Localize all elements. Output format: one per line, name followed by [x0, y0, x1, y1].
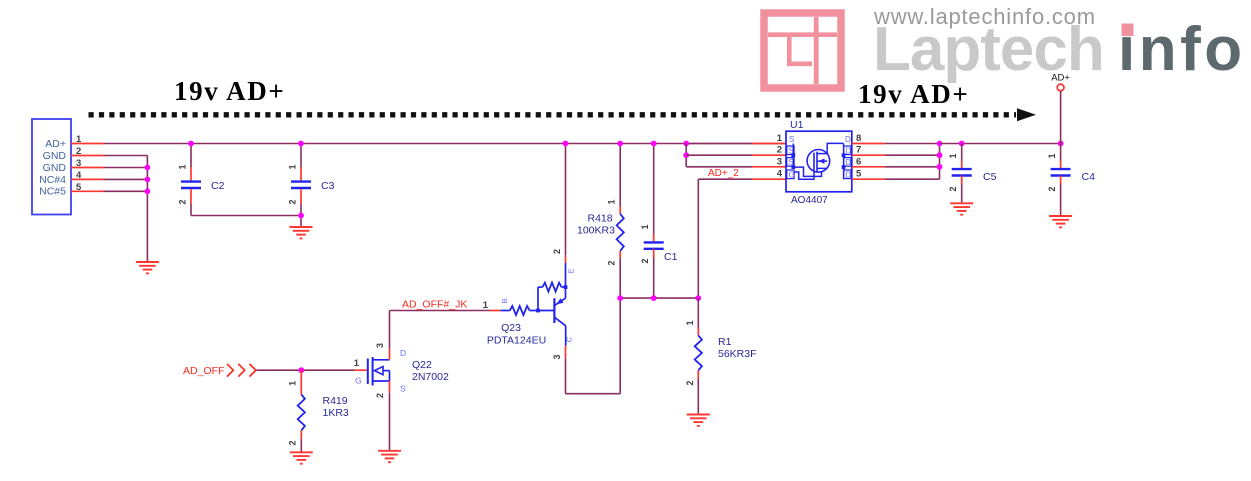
wire U1 pin4 AD+_2 [698, 179, 752, 298]
svg-text:2: 2 [607, 260, 617, 265]
pin number U1 pin5 [856, 169, 862, 180]
capacitor C2 pin1 stub [190, 167, 192, 181]
dotted flow line [89, 112, 1017, 117]
pin number U1 pin7 [856, 145, 861, 156]
svg-text:1: 1 [483, 300, 489, 311]
svg-text:1: 1 [607, 199, 617, 204]
terminal AD+ circle [1057, 84, 1064, 91]
wire R419 bottom [300, 439, 302, 453]
wire Q23 emitter riser [565, 144, 567, 256]
wire R1 bottom [697, 379, 699, 415]
capacitor C4 pin2 stub [1060, 176, 1062, 185]
capacitor C5 pin1 stub [961, 161, 963, 170]
svg-text:NC#5: NC#5 [39, 186, 66, 198]
wire C2 bottom [191, 204, 301, 216]
transistor Q22 gate stub [355, 369, 367, 371]
transistor Q22 drain pin number [375, 343, 385, 348]
net label AD_OFF [183, 365, 224, 377]
svg-text:AD+_2: AD+_2 [708, 168, 739, 179]
capacitor C1 pin1 number [640, 224, 650, 229]
resistor R1 label [718, 336, 757, 360]
capacitor C3 pin2 stub [300, 189, 302, 204]
net label 19v AD+ (right) [858, 79, 969, 109]
transistor Q23 base-emitter resistor [538, 283, 567, 311]
connector CN (DC jack) body [32, 119, 71, 215]
wire U1 pin6 [885, 166, 940, 168]
svg-text:AD+: AD+ [1051, 73, 1070, 84]
junction right bus pin7 [937, 152, 943, 158]
svg-text:1: 1 [1047, 153, 1057, 158]
svg-text:3: 3 [552, 354, 562, 359]
pin stub U1 pin4 [752, 178, 786, 180]
svg-text:2: 2 [178, 199, 188, 204]
U1 pin3 letter S [787, 158, 794, 168]
capacitor C3 label [321, 180, 335, 192]
svg-text:1: 1 [777, 133, 783, 144]
svg-text:1: 1 [288, 164, 298, 169]
wire R418 bottom [619, 259, 621, 299]
capacitor C3 pin1 stub [300, 167, 302, 181]
wire U1 bus drop [685, 144, 687, 167]
transistor Q23 collector [555, 317, 566, 345]
connector pin name AD+ [45, 138, 66, 150]
transistor Q22 gate pin number [354, 358, 360, 369]
transistor Q23 emitter [555, 263, 566, 305]
connector pin 1 number [76, 134, 82, 145]
capacitor C1 label [664, 251, 678, 263]
transistor Q23 base pin number [483, 300, 489, 311]
wire U1 pin3 [686, 166, 752, 168]
resistor R419 label [323, 395, 349, 419]
svg-text:AD+: AD+ [45, 138, 66, 150]
pin number U1 pin6 [856, 156, 861, 167]
svg-text:NC#4: NC#4 [39, 174, 66, 186]
terminal AD+ label [1051, 73, 1070, 84]
junction Q23 rail [563, 141, 569, 147]
pin stub U1 pin3 [752, 166, 786, 168]
transistor Q23 letter E [567, 268, 576, 273]
wire U1 pin2 [686, 154, 752, 156]
ground C4 [1049, 216, 1072, 227]
transistor Q22 drain stub [389, 349, 391, 360]
resistor R418 pin2 stub [619, 251, 621, 259]
connector pin 5 number [76, 182, 82, 193]
ground C5 [950, 203, 973, 214]
svg-text:1: 1 [178, 164, 188, 169]
svg-text:R418: R418 [588, 213, 613, 225]
resistor R1 [695, 335, 702, 370]
U1 internal mosfet gate bar [813, 153, 815, 171]
pin stub U1 pin6 [852, 166, 885, 168]
svg-text:G: G [789, 171, 795, 180]
capacitor C2 pin1 number [178, 164, 188, 169]
svg-text:C3: C3 [321, 180, 335, 192]
U1 internal source path [793, 167, 821, 176]
resistor R419 [298, 394, 305, 430]
svg-text:C: C [565, 336, 574, 342]
pin stub U1 pin2 [752, 154, 786, 156]
resistor R419 pin2 number [287, 440, 297, 445]
net label AD_OFF#_JK [402, 299, 467, 311]
resistor R418 [617, 214, 624, 251]
dotted flow line arrowhead [1017, 108, 1036, 121]
pin number U1 pin3 [777, 156, 782, 167]
svg-text:3: 3 [375, 343, 385, 348]
junction pin4 [145, 177, 151, 183]
transistor Q23 base letter B [500, 298, 509, 303]
connector pin 3 stub [71, 167, 104, 169]
wire Q22 drain riser [390, 311, 491, 349]
transistor Q22 label [412, 359, 449, 383]
svg-text:5: 5 [856, 169, 862, 180]
logo wordmark Laptech [873, 15, 1104, 84]
node AD+_2 label [708, 168, 739, 179]
transistor Q23 base series resistor [501, 306, 554, 315]
junction C5 rail [959, 141, 965, 147]
transistor Q23 collector stub [565, 346, 567, 359]
net label 19v AD+ (left) [174, 76, 285, 106]
svg-text:G: G [355, 376, 362, 386]
wire pin3 [104, 167, 148, 169]
transistor Q22 gate bar [367, 359, 369, 385]
resistor R418 pin2 number [607, 260, 617, 265]
pin stub U1 pin7 [852, 154, 885, 156]
junction C2 rail [188, 141, 194, 147]
junction AD_OFF R419 [298, 367, 304, 373]
transistor Q22 letter G [355, 376, 362, 386]
svg-text:2: 2 [685, 380, 695, 385]
svg-text:2: 2 [948, 186, 958, 191]
wire right bus [939, 144, 941, 180]
svg-text:D: D [845, 147, 851, 156]
wire C3 top [300, 144, 302, 168]
svg-text:GND: GND [43, 150, 67, 162]
pin number U1 pin1 [777, 133, 783, 144]
svg-text:C2: C2 [211, 180, 225, 192]
U1 pin7 letter D [844, 146, 852, 156]
resistor R1 pin2 stub [697, 370, 699, 378]
svg-text:56KR3F: 56KR3F [718, 348, 757, 360]
svg-text:1: 1 [685, 320, 695, 325]
U1 pin8 letter D [845, 135, 851, 144]
U1 internal gate path [794, 170, 814, 179]
svg-text:19v AD+: 19v AD+ [174, 76, 285, 106]
svg-text:S: S [789, 135, 794, 144]
junction U1 bus rail [683, 141, 689, 147]
transistor Q23 emitter stub [565, 256, 567, 263]
svg-text:C1: C1 [664, 251, 678, 263]
connector pin name GND [43, 162, 67, 174]
wire U1 pin1 [686, 143, 752, 145]
wire C4 bottom [1060, 184, 1062, 216]
transistor Q22 channel stubs [373, 360, 390, 381]
pin stub U1 pin1 [752, 143, 786, 145]
capacitor C4 pin1 stub [1060, 161, 1062, 170]
ground R419 [290, 452, 313, 463]
svg-text:7: 7 [856, 145, 861, 156]
svg-text:AO4407: AO4407 [791, 195, 828, 206]
wire bottom node [620, 297, 698, 299]
resistor R1 pin1 stub [697, 328, 699, 336]
transistor Q22 source pin number [375, 393, 385, 398]
svg-text:GND: GND [43, 162, 67, 174]
junction bottom R1 [695, 295, 701, 301]
ground Q22 [378, 451, 401, 462]
svg-text:6: 6 [856, 156, 861, 167]
connector pin 4 stub [71, 178, 104, 180]
junction U1 bus pin2 [683, 152, 689, 158]
svg-text:19v AD+: 19v AD+ [858, 79, 969, 109]
svg-text:1: 1 [354, 358, 360, 369]
svg-text:1: 1 [287, 381, 297, 386]
connector pin 5 stub [71, 190, 104, 192]
U1 refdes label [790, 119, 804, 131]
transistor Q23 letter C [565, 336, 574, 342]
junction bottom R418 [617, 295, 623, 301]
capacitor C2 [181, 182, 201, 188]
svg-text:2: 2 [288, 199, 298, 204]
resistor R419 pin1 number [287, 381, 297, 386]
capacitor C3 pin1 number [288, 164, 298, 169]
junction pin3 [145, 165, 151, 171]
transistor Q22 letter D [400, 348, 406, 358]
ground connector [136, 262, 159, 273]
svg-text:AD_OFF#_JK: AD_OFF#_JK [402, 299, 467, 311]
wire C1 top [653, 144, 655, 234]
svg-text:PDTA124EU: PDTA124EU [487, 335, 546, 347]
capacitor C1 [644, 242, 664, 248]
resistor R419 pin1 stub [300, 370, 302, 394]
capacitor C4 label [1082, 171, 1096, 183]
capacitor C2 label [211, 180, 225, 192]
junction R418 rail [617, 141, 623, 147]
wire C4 top [1060, 144, 1062, 162]
op... mosfet U1 body (AO4407) outline [786, 131, 852, 192]
connector pin name NC#4 [39, 174, 66, 186]
svg-text:Q23: Q23 [501, 322, 521, 334]
connector pin 2 stub [71, 155, 104, 157]
resistor R1 pin2 number [685, 380, 695, 385]
U1 internal source bus [791, 144, 795, 170]
capacitor C4 [1051, 169, 1071, 175]
capacitor C1 pin2 number [640, 258, 650, 263]
logo square (Laptech info emblem) [764, 13, 841, 88]
pin stub U1 pin8 [852, 143, 885, 145]
capacitor C4 pin2 number [1047, 186, 1057, 191]
wire R1 top [697, 298, 699, 327]
resistor R418 label [577, 213, 615, 237]
wire Q22 source to gnd [389, 393, 391, 451]
wire U1 pin7 [885, 154, 940, 156]
U1 internal drain path [827, 143, 843, 153]
U1 internal mosfet circle [807, 150, 830, 173]
transistor Q23 collector pin number [552, 354, 562, 359]
connector pin 2 number [76, 146, 81, 157]
wire C2 top [190, 144, 192, 168]
wire pin5 [104, 190, 148, 192]
svg-text:1: 1 [640, 224, 650, 229]
svg-text:8: 8 [856, 133, 861, 144]
U1 pin1 letter S [789, 135, 794, 144]
connector pin 3 number [76, 158, 81, 169]
junction bottom C1 [651, 295, 657, 301]
svg-text:C4: C4 [1082, 171, 1096, 183]
wire C3 bottom [300, 204, 302, 227]
U1 pin2 letter S [787, 146, 794, 156]
svg-text:100KR3: 100KR3 [577, 225, 615, 237]
svg-text:E: E [567, 268, 576, 273]
capacitor C2 pin2 number [178, 199, 188, 204]
U1 internal drain bus [842, 143, 846, 179]
transistor Q23 base bar [553, 298, 555, 323]
logo wordmark info [1118, 15, 1246, 84]
capacitor C5 pin1 number [948, 153, 958, 158]
svg-text:S: S [400, 384, 406, 394]
connector pin name GND [43, 150, 67, 162]
wire C5 top [961, 144, 963, 162]
wire AD+ terminal to rail [1060, 91, 1062, 144]
wire AD_OFF [257, 369, 356, 371]
wire output rail [940, 143, 1061, 145]
svg-text:C5: C5 [983, 171, 997, 183]
pin stub U1 pin5 [852, 178, 885, 180]
wire R418 top [619, 144, 621, 207]
connector pin 4 number [76, 170, 82, 181]
wire Q23 collector loop [566, 298, 621, 394]
resistor R419 pin2 stub [300, 430, 302, 438]
svg-text:3: 3 [777, 156, 782, 167]
transistor Q23 base stub [490, 310, 501, 312]
svg-text:D: D [400, 348, 406, 358]
svg-text:2: 2 [287, 440, 297, 445]
svg-text:AD_OFF: AD_OFF [183, 365, 224, 377]
svg-text:1KR3: 1KR3 [323, 407, 349, 419]
wire main rail 19v AD+ [104, 143, 787, 145]
capacitor C3 pin2 number [288, 199, 298, 204]
capacitor C5 pin2 stub [961, 176, 963, 185]
svg-text:1: 1 [948, 153, 958, 158]
pin number U1 pin8 [856, 133, 861, 144]
svg-text:2: 2 [640, 258, 650, 263]
junction C3 bottom [298, 213, 304, 219]
junction C3 rail [298, 141, 304, 147]
svg-text:2N7002: 2N7002 [412, 371, 449, 383]
transistor Q22 channel bar [372, 357, 374, 386]
wire U1 pin8 to rail [885, 143, 940, 145]
capacitor C3 [291, 182, 311, 188]
junction right bus pin6 [937, 164, 943, 170]
junction C4 rail [1058, 141, 1064, 147]
capacitor C4 pin1 number [1047, 153, 1057, 158]
ground C3 [290, 227, 313, 238]
connector pin name NC#5 [39, 186, 66, 198]
capacitor C5 label [983, 171, 997, 183]
capacitor C5 pin2 number [948, 186, 958, 191]
svg-text:4: 4 [777, 169, 783, 180]
port AD_OFF chevrons [227, 364, 256, 377]
U1 internal mosfet channel bar [816, 152, 818, 172]
pin number U1 pin2 [777, 145, 782, 156]
resistor R418 pin1 stub [619, 206, 621, 214]
svg-text:D: D [845, 158, 851, 167]
svg-text:info: info [1118, 15, 1246, 84]
U1 internal mosfet stubs [817, 154, 827, 169]
connector pin 1 stub [71, 143, 104, 145]
svg-text:2: 2 [375, 393, 385, 398]
ground R1 [687, 415, 710, 426]
junction C1 rail [651, 141, 657, 147]
svg-text:2: 2 [777, 145, 782, 156]
wire C5 bottom [961, 184, 963, 203]
svg-text:D: D [845, 135, 851, 144]
transistor Q23 label [487, 322, 546, 347]
svg-text:U1: U1 [790, 119, 804, 131]
logo url text www.laptechinfo.com [873, 4, 1096, 29]
resistor R1 pin1 number [685, 320, 695, 325]
wire U1 pin5 [885, 178, 940, 180]
capacitor C5 [952, 169, 972, 175]
svg-text:Q22: Q22 [412, 359, 432, 371]
pin number U1 pin4 [777, 169, 783, 180]
transistor Q22 source stub [389, 381, 391, 393]
svg-text:D: D [845, 171, 851, 180]
capacitor C1 pin2 stub [653, 249, 655, 258]
svg-text:R1: R1 [718, 336, 732, 348]
svg-text:B: B [500, 298, 509, 303]
U1 part number label AO4407 [791, 195, 828, 206]
U1 pin4 letter G [787, 170, 795, 180]
transistor Q23 pin2 number [552, 249, 562, 254]
capacitor C2 pin2 stub [190, 189, 192, 204]
capacitor C1 pin1 stub [653, 234, 655, 243]
svg-text:2: 2 [552, 249, 562, 254]
wire C1 bottom [653, 258, 655, 299]
wire pin4 [104, 178, 148, 180]
U1 pin6 letter D [844, 158, 852, 168]
svg-text:2: 2 [1047, 186, 1057, 191]
transistor Q22 letter S [400, 384, 406, 394]
wire pin2 to gnd bus [104, 156, 148, 263]
U1 pin5 letter D [844, 170, 852, 180]
junction right bus rail [937, 141, 943, 147]
resistor R418 pin1 number [607, 199, 617, 204]
junction pin5 [145, 188, 151, 194]
svg-text:R419: R419 [323, 395, 348, 407]
